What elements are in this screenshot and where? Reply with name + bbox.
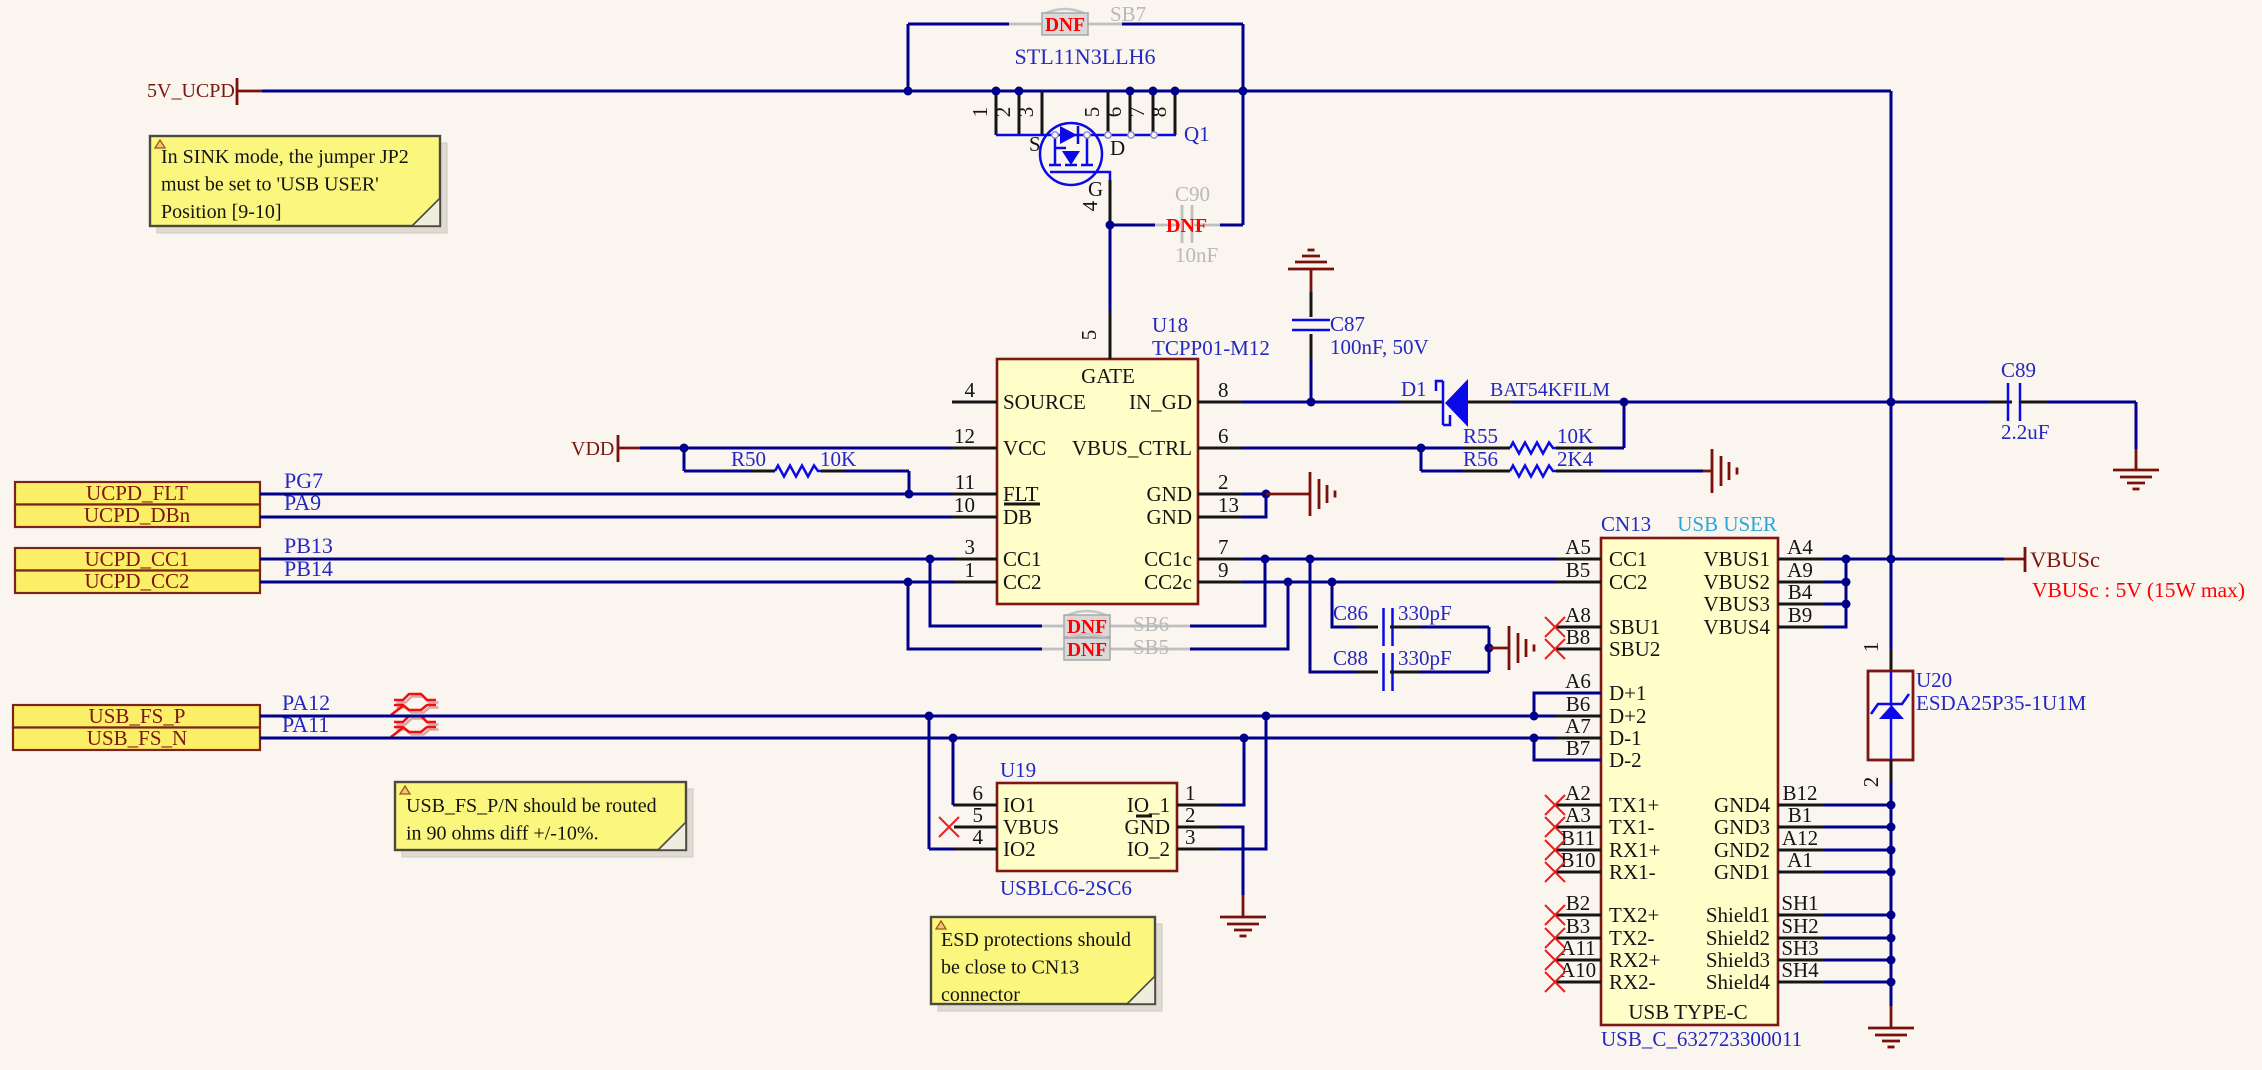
svg-text:R55: R55	[1463, 424, 1498, 448]
connector CN13 body	[1601, 538, 1778, 1025]
svg-text:B7: B7	[1566, 736, 1591, 760]
node junction VDD/R50	[680, 444, 689, 453]
node junction CC1c/C88	[1306, 555, 1315, 564]
transistor Q1 pin 5	[1107, 91, 1110, 135]
wire UCPD_CC1 / PB13 to U18.CC1	[260, 558, 954, 561]
svg-text:ESDA25P35-1U1M: ESDA25P35-1U1M	[1916, 691, 2087, 715]
svg-text:GND4: GND4	[1714, 793, 1770, 817]
CN13 pin B2 TX2+	[1555, 914, 1601, 917]
svg-text:CN13: CN13	[1601, 512, 1651, 536]
svg-text:C89: C89	[2001, 358, 2036, 382]
CN13 pin A9 VBUS2	[1778, 581, 1824, 584]
TVS diode U20 pin 1 stub	[1890, 649, 1893, 671]
svg-text:VBUSc: VBUSc	[2030, 547, 2100, 572]
svg-text:UCPD_CC1: UCPD_CC1	[84, 547, 189, 571]
wire U19.IO2 to PA12 net	[928, 716, 931, 849]
svg-text:330pF: 330pF	[1398, 646, 1452, 670]
svg-text:9: 9	[1218, 558, 1229, 582]
svg-text:8: 8	[1147, 107, 1171, 118]
wire 5V_UCPD rail	[262, 90, 1891, 93]
svg-text:2K4: 2K4	[1557, 447, 1594, 471]
wire U19.IO_1 riser	[1220, 738, 1244, 805]
wire rail to bottom ground	[1890, 1006, 1893, 1028]
svg-text:B3: B3	[1566, 914, 1591, 938]
svg-text:Shield1: Shield1	[1706, 903, 1770, 927]
svg-text:PB13: PB13	[284, 533, 333, 558]
wire C88 branch	[1310, 559, 1355, 672]
wire GND3 to rail	[1824, 826, 1891, 829]
op-chip U18 TCPP01-M12 body	[997, 359, 1198, 604]
svg-text:In SINK mode, the jumper JP2: In SINK mode, the jumper JP2	[161, 146, 409, 168]
U18 pin 8 IN_GD	[1198, 401, 1242, 404]
transistor Q1 gate lead + pin 4	[1094, 172, 1110, 180]
node junction U19.IO_1 tap	[1240, 734, 1249, 743]
svg-text:3: 3	[1014, 107, 1038, 118]
CN13 pin A10 RX2-	[1555, 981, 1601, 984]
U18 pin 13 GND	[1198, 516, 1242, 519]
node junction SB6/CC1c	[1261, 555, 1270, 564]
svg-text:PB14: PB14	[284, 556, 333, 581]
transistor Q1 pin 8	[1174, 91, 1177, 135]
wire U18.CC2c to CN13.CC2	[1242, 581, 1555, 584]
wire VBUS3 stub	[1824, 603, 1846, 606]
solder bridge SB6 (DNF)	[1042, 625, 1064, 628]
node junction Shield4/rail	[1887, 978, 1896, 987]
svg-text:GND3: GND3	[1714, 815, 1770, 839]
wire C89 to ground	[2135, 402, 2138, 449]
wire R56 to ground	[1703, 470, 1712, 473]
ground GND (R56)	[1711, 449, 1714, 493]
differential pair mark PA12	[397, 697, 439, 713]
differential pair mark PA11	[397, 719, 439, 735]
resistor R56	[1463, 470, 1510, 473]
svg-text:GND2: GND2	[1714, 838, 1770, 862]
svg-text:SH2: SH2	[1781, 914, 1818, 938]
CN13 pin A11 RX2+	[1555, 959, 1601, 962]
svg-text:B2: B2	[1566, 891, 1591, 915]
svg-text:DNF: DNF	[1045, 15, 1085, 36]
CN13 pin A4 VBUS1	[1778, 558, 1824, 561]
solder bridge SB7 (DNF)	[1046, 9, 1084, 13]
svg-text:SOURCE: SOURCE	[1003, 390, 1086, 414]
svg-text:B9: B9	[1788, 603, 1813, 627]
capacitor C89	[1891, 401, 1989, 404]
svg-text:10: 10	[954, 493, 975, 517]
node junction Shield3/rail	[1887, 956, 1896, 965]
svg-text:GATE: GATE	[1081, 364, 1135, 388]
node junction D-2 bracket	[1530, 734, 1539, 743]
svg-text:D: D	[1110, 136, 1125, 160]
U18 pin 2 GND	[1198, 493, 1242, 496]
wire USB_FS_N / PA11 to CN13.D-1	[260, 737, 1555, 740]
svg-text:must be set to 'USB USER': must be set to 'USB USER'	[161, 174, 379, 196]
node junction CC2c/C86	[1328, 578, 1337, 587]
node junction VBUS_CTRL/R56	[1417, 444, 1426, 453]
wire GND4 to rail	[1824, 804, 1891, 807]
node junction rail/IN_GD/C89	[1887, 398, 1896, 407]
U19 pin 2 GND	[1177, 826, 1220, 829]
svg-text:1: 1	[1185, 781, 1196, 805]
svg-text:1: 1	[968, 107, 992, 118]
svg-text:STL11N3LLH6: STL11N3LLH6	[1015, 44, 1156, 69]
svg-text:A5: A5	[1565, 535, 1591, 559]
U18 pin 12 VCC	[952, 447, 997, 450]
wire SB7 loop top right segment	[1122, 23, 1243, 26]
svg-text:B6: B6	[1566, 692, 1591, 716]
svg-text:CC1: CC1	[1609, 547, 1648, 571]
diode D1 BAT54KFILM	[1399, 401, 1443, 404]
svg-text:PA9: PA9	[284, 490, 321, 515]
chip U19 USBLC6-2SC6 body	[997, 783, 1177, 871]
CN13 pin B9 VBUS4	[1778, 626, 1824, 629]
svg-text:TX2-: TX2-	[1609, 926, 1655, 950]
node junction U19.IO_2 tap	[1262, 712, 1271, 721]
svg-text:RX1-: RX1-	[1609, 860, 1656, 884]
svg-text:1: 1	[965, 558, 976, 582]
CN13 pin A8 SBU1	[1555, 626, 1601, 629]
CN13 pin B3 TX2-	[1555, 937, 1601, 940]
svg-text:7: 7	[1218, 535, 1229, 559]
svg-text:7: 7	[1125, 107, 1149, 118]
svg-text:R50: R50	[731, 447, 766, 471]
wire U18.VBUS_CTRL to R55	[1242, 447, 1463, 450]
U18 pin 6 VBUS_CTRL	[1198, 447, 1242, 450]
wire SB6 right rise	[1190, 559, 1265, 626]
svg-text:6: 6	[973, 781, 984, 805]
U18 pin 1 CC2	[952, 581, 997, 584]
svg-text:VCC: VCC	[1003, 436, 1046, 460]
CN13 pin SH2 Shield2	[1778, 937, 1824, 940]
wire C90 branch	[1110, 224, 1155, 227]
svg-text:3: 3	[1185, 825, 1196, 849]
U18 pin 5 GATE stub	[1109, 311, 1112, 359]
svg-text:10K: 10K	[820, 447, 856, 471]
svg-text:A10: A10	[1560, 958, 1596, 982]
U18 pin 10 DB	[952, 516, 997, 519]
node junction U19.IO1 tap	[949, 734, 958, 743]
CN13 pin A12 GND2	[1778, 849, 1824, 852]
svg-text:Shield2: Shield2	[1706, 926, 1770, 950]
CN13 pin B10 RX1-	[1555, 871, 1601, 874]
wire Shield4 to rail	[1824, 981, 1891, 984]
svg-text:TX1-: TX1-	[1609, 815, 1655, 839]
wire SB5 left drop	[908, 582, 1042, 649]
svg-text:CC2: CC2	[1003, 570, 1042, 594]
wire SB7 loop right vertical	[1242, 24, 1245, 225]
wire U18 GND pins	[1242, 493, 1266, 496]
svg-text:330pF: 330pF	[1398, 601, 1452, 625]
node junction PB13/SB6	[926, 555, 935, 564]
wire gate net Q1.4 to U18.GATE	[1109, 225, 1112, 311]
CN13 pin A5 CC1	[1555, 558, 1601, 561]
svg-text:2: 2	[1218, 470, 1229, 494]
svg-text:A3: A3	[1565, 803, 1591, 827]
resistor R50	[684, 470, 752, 473]
node junction SB7-left on 5V rail	[904, 87, 913, 96]
wire R50 branch down	[683, 448, 686, 471]
svg-text:4: 4	[973, 825, 984, 849]
svg-text:TX1+: TX1+	[1609, 793, 1659, 817]
transistor Q1 pin 2	[1018, 91, 1021, 135]
svg-text:IO2: IO2	[1003, 837, 1036, 861]
CN13 pin B11 RX1+	[1555, 849, 1601, 852]
U19 pin 3 IO_2	[1177, 848, 1220, 851]
svg-text:USB USER: USB USER	[1677, 512, 1777, 536]
node junction GND3/rail	[1887, 823, 1896, 832]
node junction D+1 bracket	[1530, 712, 1539, 721]
svg-text:B8: B8	[1566, 625, 1591, 649]
svg-text:2.2uF: 2.2uF	[2001, 420, 2049, 444]
svg-text:USB_FS_N: USB_FS_N	[87, 726, 187, 750]
wire D1 to junction	[1511, 401, 1891, 404]
node junction SB5/CC2c	[1284, 578, 1293, 587]
U19 pin 1 IO_1	[1177, 804, 1220, 807]
wire R50 to FLT net	[908, 471, 911, 494]
svg-text:VBUS1: VBUS1	[1703, 547, 1770, 571]
U19 GND label overline	[1136, 815, 1152, 818]
svg-text:IO1: IO1	[1003, 793, 1036, 817]
svg-text:2: 2	[1185, 803, 1196, 827]
wire SB5 right rise	[1190, 582, 1288, 649]
wire R55 riser	[1623, 402, 1626, 448]
wire D-2 bracket	[1534, 738, 1601, 760]
CN13 pin SH1 Shield1	[1778, 914, 1824, 917]
svg-text:VBUSc : 5V (15W max): VBUSc : 5V (15W max)	[2032, 578, 2245, 602]
wire to signal ground	[1266, 493, 1310, 496]
no-connect X on U19 pin 5	[939, 817, 959, 837]
capacitor C90 (DNF)	[1181, 205, 1184, 243]
svg-text:DB: DB	[1003, 505, 1032, 529]
ground GND (U18 pins 2,13)	[1309, 472, 1312, 516]
svg-text:A12: A12	[1782, 826, 1818, 850]
port flag UCPD_CC1	[15, 548, 260, 571]
wire U18.IN_GD to D1	[1242, 401, 1399, 404]
svg-text:GND: GND	[1147, 505, 1193, 529]
U18 pin 7 CC1c	[1198, 558, 1242, 561]
svg-text:TCPP01-M12: TCPP01-M12	[1152, 336, 1270, 360]
svg-text:6: 6	[1218, 424, 1229, 448]
svg-text:UCPD_DBn: UCPD_DBn	[84, 503, 191, 527]
CN13 pin SH3 Shield3	[1778, 959, 1824, 962]
svg-text:D1: D1	[1401, 377, 1427, 401]
svg-text:D-1: D-1	[1609, 726, 1642, 750]
svg-text:U18: U18	[1152, 313, 1188, 337]
svg-text:GND: GND	[1147, 482, 1193, 506]
wire USB_FS_P / PA12 to CN13.D+2	[260, 715, 1555, 718]
wire SB7 gray segments	[1009, 23, 1042, 26]
svg-text:VBUS3: VBUS3	[1703, 592, 1770, 616]
note: SINK mode jumper JP2	[157, 143, 447, 233]
CN13 pin B4 VBUS3	[1778, 603, 1824, 606]
CN13 pin B6 D+2	[1555, 715, 1601, 718]
svg-text:DNF: DNF	[1067, 640, 1107, 661]
wire SB7 loop left	[907, 24, 910, 91]
wire GND1 to rail	[1824, 871, 1891, 874]
svg-text:SH3: SH3	[1781, 936, 1818, 960]
wire Shield1 to rail	[1824, 914, 1891, 917]
svg-text:12: 12	[954, 424, 975, 448]
node junction GND2/rail	[1887, 846, 1896, 855]
wire rail IN_GD to VBUS row	[1890, 402, 1893, 559]
node junction VBUS bracket top	[1842, 555, 1851, 564]
svg-text:A1: A1	[1787, 848, 1813, 872]
svg-text:G: G	[1088, 177, 1103, 201]
wire SB6 left drop	[930, 559, 1042, 626]
svg-text:GND1: GND1	[1714, 860, 1770, 884]
CN13 pin A3 TX1-	[1555, 826, 1601, 829]
transistor Q1 MOSFET symbol	[1040, 123, 1102, 185]
svg-text:CC2c: CC2c	[1144, 570, 1192, 594]
wire 5V rail vertical (right)	[1890, 91, 1893, 402]
wire D+1 bracket	[1534, 693, 1601, 716]
ground GND (C89)	[2113, 469, 2159, 472]
svg-text:IO_1: IO_1	[1127, 793, 1170, 817]
svg-text:A11: A11	[1560, 936, 1595, 960]
wire UCPD_FLT / PG7	[260, 493, 952, 496]
CN13 pin A6 D+1	[1555, 692, 1601, 695]
svg-text:2: 2	[991, 107, 1015, 118]
svg-text:6: 6	[1102, 107, 1126, 118]
svg-text:4: 4	[965, 378, 976, 402]
ground GND (U19)	[1220, 916, 1266, 919]
solder bridge SB5 (DNF)	[1042, 648, 1064, 651]
svg-text:USB TYPE-C: USB TYPE-C	[1628, 1000, 1747, 1024]
wire U19.IO_2 riser	[1220, 716, 1266, 849]
CN13 pin A2 TX1+	[1555, 804, 1601, 807]
svg-text:U19: U19	[1000, 758, 1036, 782]
svg-text:10K: 10K	[1557, 424, 1593, 448]
note: USB_FS routing	[402, 789, 693, 857]
svg-text:10nF: 10nF	[1175, 243, 1218, 267]
svg-text:Position [9-10]: Position [9-10]	[161, 201, 282, 223]
svg-text:RX2+: RX2+	[1609, 948, 1661, 972]
U18 pin 4 SOURCE	[952, 401, 997, 404]
U19 pin 4 IO2	[954, 848, 997, 851]
wire U19.IO1 to PA11 net	[952, 738, 955, 805]
svg-text:BAT54KFILM: BAT54KFILM	[1490, 379, 1610, 401]
node junction VBUS2	[1842, 578, 1851, 587]
node junction PB14/SB5	[904, 578, 913, 587]
svg-text:5: 5	[973, 803, 984, 827]
wire C86 branch	[1332, 582, 1355, 627]
svg-text:USB_FS_P/N should be routed: USB_FS_P/N should be routed	[406, 795, 657, 817]
node junction U19.IO2 tap	[925, 712, 934, 721]
svg-text:A8: A8	[1565, 603, 1591, 627]
svg-text:13: 13	[1218, 493, 1239, 517]
node junction D1/R55	[1620, 398, 1629, 407]
node junction Shield1/rail	[1887, 911, 1896, 920]
svg-text:USB_C_632723300011: USB_C_632723300011	[1601, 1027, 1802, 1051]
node junction C87/IN_GD	[1307, 398, 1316, 407]
svg-text:VBUS_CTRL: VBUS_CTRL	[1072, 436, 1192, 460]
svg-text:D+1: D+1	[1609, 681, 1647, 705]
transistor Q1 pin 7	[1152, 91, 1155, 135]
node junction Shield2/rail	[1887, 934, 1896, 943]
svg-text:5V_UCPD: 5V_UCPD	[147, 80, 235, 102]
U19 pin 5 VBUS	[954, 826, 997, 829]
transistor Q1 pin 3	[1041, 91, 1044, 135]
U18 pin 11 FLT	[952, 493, 997, 496]
node junction GND4/rail	[1887, 801, 1896, 810]
svg-text:11: 11	[955, 470, 975, 494]
node junction VBUS3	[1842, 600, 1851, 609]
svg-text:SB6: SB6	[1133, 612, 1169, 636]
svg-text:CC2: CC2	[1609, 570, 1648, 594]
CN13 pin B7 D-2	[1555, 759, 1601, 762]
svg-text:FLT: FLT	[1003, 482, 1039, 506]
svg-text:D-2: D-2	[1609, 748, 1642, 772]
ground GND (C86/C88)	[1508, 626, 1511, 670]
wire C86/C88 join	[1488, 627, 1491, 672]
port flag UCPD_FLT	[15, 482, 260, 505]
svg-text:Q1: Q1	[1184, 122, 1210, 146]
svg-text:VBUS4: VBUS4	[1703, 615, 1770, 639]
svg-text:IN_GD: IN_GD	[1129, 390, 1192, 414]
svg-text:RX2-: RX2-	[1609, 970, 1656, 994]
U18 pin 3 CC1	[952, 558, 997, 561]
capacitor C86	[1355, 626, 1378, 629]
svg-text:SB7: SB7	[1110, 2, 1146, 26]
svg-text:B5: B5	[1566, 558, 1591, 582]
svg-text:Shield3: Shield3	[1706, 948, 1770, 972]
wire VBUS4 stub	[1824, 559, 1846, 627]
svg-text:be close to CN13: be close to CN13	[941, 957, 1079, 979]
svg-text:ESD protections should: ESD protections should	[941, 929, 1131, 951]
wire U18.CC1c to CN13.CC1	[1242, 558, 1555, 561]
svg-text:in 90 ohms diff +/-10%.: in 90 ohms diff +/-10%.	[406, 823, 599, 845]
svg-text:A2: A2	[1565, 781, 1591, 805]
svg-text:IO_2: IO_2	[1127, 837, 1170, 861]
svg-text:SH1: SH1	[1781, 891, 1818, 915]
wire rail VBUS row to U20 pin1	[1890, 559, 1893, 649]
svg-text:B1: B1	[1788, 803, 1813, 827]
svg-text:B10: B10	[1560, 848, 1595, 872]
wire UCPD_CC2 / PB14 to U18.CC2	[260, 581, 954, 584]
CN13 pin A1 GND1	[1778, 871, 1824, 874]
svg-text:S: S	[1029, 132, 1041, 156]
svg-text:GND: GND	[1125, 815, 1171, 839]
capacitor C87	[1310, 269, 1313, 292]
svg-text:C87: C87	[1330, 312, 1365, 336]
svg-text:U20: U20	[1916, 668, 1952, 692]
wire Shield2 to rail	[1824, 937, 1891, 940]
port flag USB_FS_P	[13, 705, 260, 728]
CN13 pin B5 CC2	[1555, 581, 1601, 584]
svg-text:SH4: SH4	[1781, 958, 1819, 982]
TVS diode U20 pin 2 stub	[1890, 760, 1893, 782]
svg-text:A6: A6	[1565, 669, 1591, 693]
CN13 pin B1 GND3	[1778, 826, 1824, 829]
port flag USB_FS_N	[13, 728, 260, 751]
svg-text:UCPD_CC2: UCPD_CC2	[84, 569, 189, 593]
svg-text:R56: R56	[1463, 447, 1498, 471]
svg-text:USBLC6-2SC6: USBLC6-2SC6	[1000, 876, 1132, 900]
node junction R50/FLT	[905, 490, 914, 499]
svg-text:C88: C88	[1333, 646, 1368, 670]
capacitor C88	[1355, 671, 1378, 674]
wire VBUS2 stub	[1824, 581, 1846, 584]
node junction GND pins	[1262, 490, 1271, 499]
CN13 pin SH4 Shield4	[1778, 981, 1824, 984]
wire R56 branch	[1420, 448, 1423, 471]
svg-text:Shield4: Shield4	[1706, 970, 1771, 994]
svg-text:VBUS2: VBUS2	[1703, 570, 1770, 594]
svg-text:RX1+: RX1+	[1609, 838, 1661, 862]
wire Shield3 to rail	[1824, 959, 1891, 962]
CN13 pin B12 GND4	[1778, 804, 1824, 807]
node junction GND1/rail	[1887, 868, 1896, 877]
port flag UCPD_DBn	[15, 505, 260, 528]
